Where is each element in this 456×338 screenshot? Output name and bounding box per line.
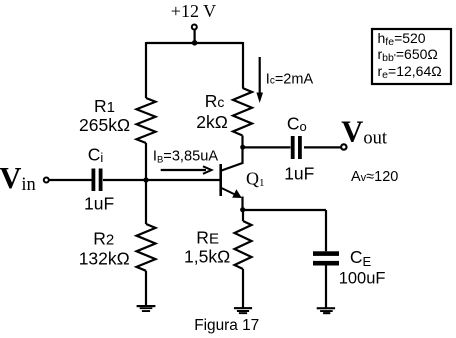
svg-text:RE: RE (196, 228, 219, 248)
svg-text:R2: R2 (93, 229, 114, 249)
svg-text:100uF: 100uF (339, 269, 386, 287)
svg-text:1uF: 1uF (84, 194, 114, 214)
svg-text:Vin: Vin (0, 161, 36, 195)
svg-text:1uF: 1uF (284, 163, 314, 183)
svg-text:2kΩ: 2kΩ (196, 112, 228, 132)
svg-text:1,5kΩ: 1,5kΩ (184, 247, 230, 267)
svg-text:re=12,64Ω: re=12,64Ω (378, 63, 442, 81)
svg-text:Co: Co (287, 114, 307, 135)
svg-text:rbb'=650Ω: rbb'=650Ω (378, 46, 438, 64)
svg-text:Rc: Rc (205, 91, 225, 111)
svg-text:+12 V: +12 V (171, 1, 216, 21)
svg-text:R1: R1 (94, 96, 115, 116)
svg-text:Figura 17: Figura 17 (194, 317, 259, 334)
svg-text:CE: CE (350, 247, 372, 269)
svg-text:Ci: Ci (88, 145, 104, 166)
svg-text:Q1: Q1 (246, 169, 265, 189)
svg-text:IB=3,85uA: IB=3,85uA (153, 149, 218, 166)
svg-text:132kΩ: 132kΩ (79, 249, 130, 269)
svg-text:Vout: Vout (341, 114, 388, 148)
svg-text:Ic=2mA: Ic=2mA (266, 71, 314, 87)
svg-text:265kΩ: 265kΩ (79, 115, 130, 135)
svg-text:Av≈120: Av≈120 (351, 169, 398, 185)
